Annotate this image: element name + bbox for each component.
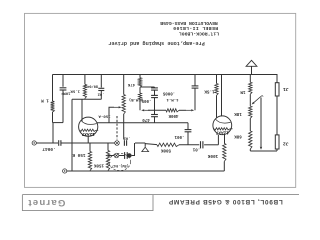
resistor 100K (223, 144, 226, 162)
wire signal C (145, 144, 157, 145)
svg-text:(SW).047: (SW).047 (112, 163, 129, 168)
resistor 1M (51, 101, 55, 112)
wire 18K bottom (249, 118, 251, 131)
capacitor .005 (154, 90, 156, 95)
svg-text:1.5K: 1.5K (204, 89, 215, 94)
wire sw res top (107, 143, 109, 151)
wire 150K top (89, 143, 91, 152)
svg-text:REVOLUTION BASS-G45B: REVOLUTION BASS-G45B (160, 20, 218, 26)
wire ground rail (67, 170, 225, 172)
tube V1 12AX7 (79, 117, 98, 136)
svg-text:.0005: .0005 (162, 91, 175, 95)
tube V2 heater (215, 128, 230, 130)
tube V2 12AX7 (213, 116, 232, 135)
capacitor .02 right (192, 85, 199, 87)
wire RC bottom bus (72, 98, 101, 100)
capacitor .0047 (58, 140, 60, 146)
wire loop to input wire (52, 123, 54, 143)
wire pot bottom (123, 114, 125, 140)
svg-text:Lil'ROCK-LB90L: Lil'ROCK-LB90L (179, 31, 219, 37)
svg-text:12AX7: 12AX7 (81, 131, 94, 136)
wire V2 plate (221, 75, 223, 117)
svg-text:J2: J2 (283, 141, 289, 147)
wiper arm right (254, 97, 261, 103)
tube V1 heater (80, 129, 96, 131)
svg-text:400K: 400K (168, 113, 178, 117)
capacitor .001 (187, 123, 189, 130)
tone pot left arrow (144, 109, 150, 111)
svg-text:1 M: 1 M (41, 98, 49, 102)
svg-text:.02: .02 (97, 92, 105, 96)
wire RC cap bottom (100, 91, 102, 100)
wire cap to up (132, 143, 135, 156)
resistor 1M right (249, 82, 252, 94)
wire .02 bottom (194, 88, 196, 110)
wire left loop left leg (52, 75, 54, 102)
wire 100K bottom (223, 161, 225, 171)
svg-text:500K: 500K (160, 147, 171, 151)
wire 47K bottom (139, 101, 141, 110)
wire 1.5K to V2 (216, 95, 218, 117)
tone pot left wire (148, 109, 166, 111)
svg-text:470: 470 (142, 117, 150, 121)
svg-text:.005: .005 (141, 98, 151, 102)
switch SW1 on signal wire (115, 141, 120, 146)
wire B+ rail (53, 74, 252, 76)
wire gang dash (116, 116, 118, 140)
dashed gang ellipse (109, 153, 131, 170)
wire 1M mid (249, 94, 251, 106)
wire V1 plate (97, 122, 188, 124)
svg-text:47K: 47K (127, 82, 135, 86)
wire grid-leak drop (71, 99, 73, 171)
tone pot right wire (179, 109, 186, 111)
wire loop bottom (53, 122, 64, 124)
potentiometer 400K (166, 109, 179, 112)
wiper drop arrow (260, 98, 262, 147)
capacitor 470 (151, 114, 158, 116)
wire signal B (135, 142, 145, 144)
title strip line (22, 194, 299, 196)
wire 1.5K top (216, 75, 218, 84)
ground stub (144, 143, 146, 147)
wire chain bottom (249, 149, 251, 151)
wire 1M top (249, 75, 251, 83)
tube V1 grid arc (81, 121, 96, 125)
resistor 18K (249, 106, 252, 118)
svg-text:68K: 68K (234, 134, 242, 138)
terminal T1 (32, 141, 36, 145)
resistor 150K sw (106, 151, 109, 171)
wire caps mid (154, 98, 156, 115)
wire signal D (179, 144, 199, 146)
wire V2 pin2 (224, 135, 226, 144)
wire signal A (61, 142, 115, 144)
wire RC res bottom (84, 97, 86, 100)
svg-text:10MF: 10MF (61, 91, 71, 95)
wire J1 to J2 (276, 96, 278, 135)
resistor mid2 (138, 93, 141, 101)
svg-text:150K: 150K (93, 162, 104, 166)
terminal T2 (63, 169, 67, 173)
capacitor .01 (200, 141, 202, 148)
svg-text:.001: .001 (174, 134, 184, 138)
wire cap leg top (62, 75, 64, 87)
svg-text:80/041: 80/041 (85, 84, 98, 89)
wire cap leg bottom (62, 90, 64, 123)
sheet frame (25, 13, 296, 187)
resistor 1.5K (215, 84, 218, 96)
wire sw2 to cap (119, 155, 125, 157)
resistor 47K (138, 78, 141, 88)
supply arrow (246, 60, 257, 66)
wire below 1M (52, 112, 54, 123)
svg-text:150 K: 150 K (72, 152, 85, 157)
wire sw2 left (108, 155, 114, 157)
svg-text:Pre-amp,tone shaping and drive: Pre-amp,tone shaping and driver (108, 40, 205, 46)
svg-text:150-A: 150-A (98, 114, 111, 118)
capacitor .0005a (154, 86, 156, 89)
jack J2 (275, 135, 279, 149)
wire rail to J1 (252, 75, 278, 83)
tone pot right arrow (186, 109, 191, 111)
capacitor 10MF (60, 87, 67, 89)
wire RC cap leg (100, 75, 102, 88)
svg-text:100K: 100K (207, 153, 218, 158)
wire 47K top (139, 75, 141, 78)
wire V2 cathode pin (217, 135, 219, 145)
capacitor .02 on signal (123, 140, 125, 146)
svg-text:1.5K: 1.5K (70, 89, 80, 93)
svg-text:18K: 18K (234, 111, 242, 115)
wire to J2 (250, 150, 277, 152)
resistor 150K (88, 152, 91, 171)
wire T1 to cap (36, 142, 58, 144)
wire pot feed (123, 75, 125, 95)
wire 47K mid (139, 87, 141, 93)
svg-text:LB90L, LB100 & G45B PREAMP: LB90L, LB100 & G45B PREAMP (168, 198, 282, 205)
resistor 500K (157, 143, 179, 146)
ground (142, 147, 149, 151)
resistor 68K (249, 131, 252, 149)
wire caps bottom (154, 117, 156, 123)
wire caps top (140, 86, 155, 88)
wiper arm V1 (109, 107, 114, 123)
svg-text:12AX7: 12AX7 (215, 129, 228, 134)
capacitor .047 (124, 152, 126, 159)
potentiometer 1M-B (122, 95, 125, 115)
wire RC res leg (84, 75, 86, 85)
svg-text:1M: 1M (240, 89, 246, 93)
svg-text:Garnet: Garnet (27, 197, 65, 208)
tube V2 grid arc (216, 119, 231, 123)
wire J2 bottom (276, 149, 278, 151)
wire .02 top (194, 75, 196, 86)
wire signal E (204, 144, 218, 146)
resistor 140/08 (83, 84, 86, 98)
tube V1 cathode pin (87, 136, 89, 143)
wire V1 grid drop (81, 99, 83, 121)
capacitor .02 RC (98, 87, 104, 89)
jack J1 (275, 83, 279, 96)
svg-text:REBEL II-LB100: REBEL II-LB100 (173, 25, 218, 31)
svg-text:.0047: .0047 (42, 146, 56, 151)
logo box (22, 195, 153, 211)
svg-text:1-M-1: 1-M-1 (166, 97, 179, 101)
switch SW2 (114, 153, 119, 158)
svg-text:.01: .01 (192, 147, 200, 151)
svg-text:J1: J1 (283, 86, 289, 92)
